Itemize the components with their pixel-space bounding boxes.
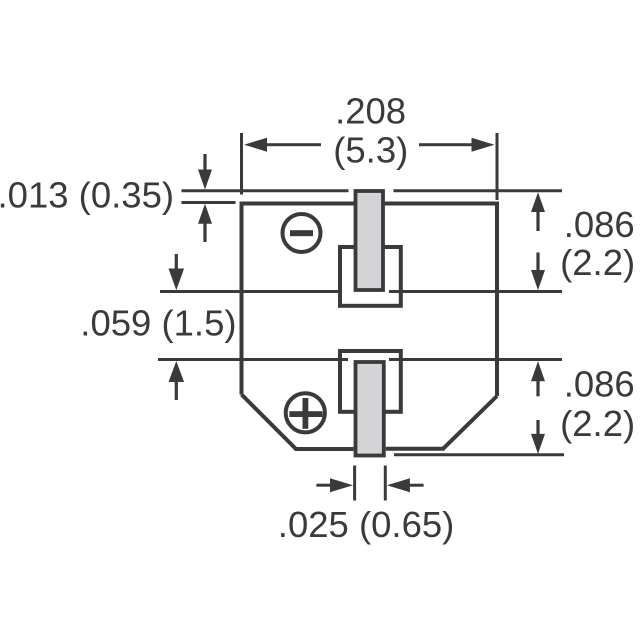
recess bracket around top pad <box>340 247 401 306</box>
body outline left edge <box>240 202 244 395</box>
svg-text:.025 (0.65): .025 (0.65) <box>278 504 455 545</box>
positive polarity symbol <box>286 393 325 432</box>
svg-text:.086: .086 <box>564 204 635 245</box>
body outline right edge <box>495 202 499 397</box>
extension line at pad bottom level (line 1) <box>160 290 562 293</box>
dimension .086 bottom up arrow <box>531 361 545 396</box>
dimension .025 left extension line <box>353 466 356 501</box>
dimension .059 upper arrow (pointing down) <box>169 254 185 290</box>
svg-text:(2.2): (2.2) <box>560 403 635 444</box>
recess bracket around bottom pad <box>340 351 401 412</box>
svg-text:(5.3): (5.3) <box>333 130 408 171</box>
svg-text:.059 (1.5): .059 (1.5) <box>80 303 236 344</box>
top terminal pad <box>356 191 384 290</box>
dimension .208 right extension line <box>496 133 499 200</box>
svg-text:.013 (0.35): .013 (0.35) <box>0 175 174 216</box>
dimension .025 right arrow (pointing left) <box>387 478 424 492</box>
negative polarity symbol <box>283 214 321 252</box>
dimension .208 right arrow <box>419 138 495 152</box>
body chamfer bottom-right <box>443 396 497 449</box>
dimension .208 left extension line <box>240 133 243 195</box>
dimension .025 right extension line <box>384 466 387 501</box>
dimension .208 left arrow <box>244 138 321 152</box>
body bottom edge right segment <box>386 447 445 451</box>
bottom terminal pad <box>356 362 384 456</box>
dimension .059 lower arrow (pointing up) <box>169 361 185 400</box>
body outline top edge <box>242 202 498 206</box>
svg-text:.208: .208 <box>335 91 406 132</box>
dimension .025 left arrow (pointing right) <box>316 478 353 492</box>
dimension .013 upper arrow (pointing down) <box>198 154 212 190</box>
dimension .086 bottom down arrow <box>531 420 545 454</box>
body chamfer bottom-left <box>242 395 297 450</box>
body bottom edge left segment <box>295 447 354 451</box>
svg-text:.086: .086 <box>564 364 635 405</box>
dimension .013 lower arrow (pointing up) <box>198 204 212 242</box>
dimension .086 top down arrow <box>531 253 545 291</box>
seating plane line (top) <box>182 189 563 192</box>
dimension .086 top up arrow <box>531 192 545 231</box>
extension line at lower pad top level (line 2) <box>158 358 562 361</box>
body top edge extension line (left of body) <box>182 201 236 204</box>
seating plane line (bottom) <box>394 453 564 456</box>
svg-text:(2.2): (2.2) <box>560 242 635 283</box>
